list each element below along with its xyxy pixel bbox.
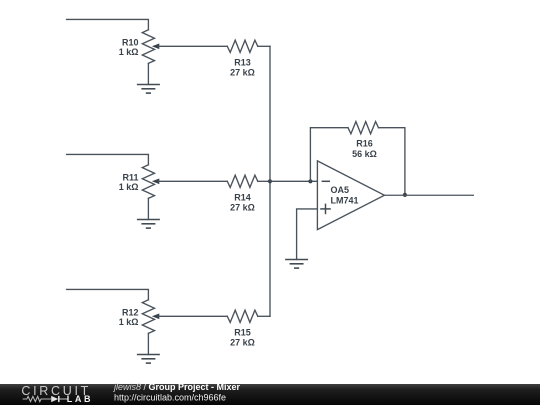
wire op-amp non-inverting input to ground xyxy=(297,209,318,260)
node feedback/input junction xyxy=(308,179,312,183)
svg-text:1 kΩ: 1 kΩ xyxy=(119,317,139,327)
wire R13 to bus xyxy=(258,45,270,47)
ground at non-inverting input xyxy=(285,260,308,269)
wire input stub to R10 top xyxy=(67,19,149,29)
resistor R16 xyxy=(348,122,379,134)
potentiometer R12 xyxy=(142,300,159,334)
footer bar xyxy=(0,384,540,405)
svg-text:LAB: LAB xyxy=(67,394,93,404)
svg-text:27 kΩ: 27 kΩ xyxy=(230,68,255,78)
wire R15 to bus xyxy=(258,315,270,317)
svg-text:http://circuitlab.com/ch966fe: http://circuitlab.com/ch966fe xyxy=(114,393,226,403)
potentiometer R10 xyxy=(142,30,159,64)
potentiometer R11 xyxy=(142,165,159,199)
wire feedback up and right xyxy=(310,128,348,182)
wire bus to op-amp inverting input xyxy=(270,180,317,182)
logo diode symbol xyxy=(51,396,67,402)
wire R12 bottom to ground xyxy=(147,333,149,354)
ground under R12 xyxy=(137,355,160,364)
svg-text:56 kΩ: 56 kΩ xyxy=(352,149,377,159)
wire input stub to R12 top xyxy=(67,289,149,299)
wire R12 wiper to R15 xyxy=(159,315,228,317)
svg-text:R15: R15 xyxy=(234,328,251,338)
logo resistor zigzag xyxy=(23,396,51,401)
svg-text:27 kΩ: 27 kΩ xyxy=(230,338,255,348)
svg-text:1 kΩ: 1 kΩ xyxy=(119,47,139,57)
resistor R13 xyxy=(227,40,257,52)
svg-text:R14: R14 xyxy=(234,193,251,203)
node bus/R14 junction xyxy=(268,179,272,183)
svg-text:R13: R13 xyxy=(234,58,251,68)
wire R10 wiper to R13 xyxy=(159,45,228,47)
resistor R15 xyxy=(227,310,257,322)
op-amp OA5 xyxy=(317,161,384,230)
wire feedback right and down to output xyxy=(379,128,405,195)
svg-text:R16: R16 xyxy=(356,139,373,149)
wire R11 bottom to ground xyxy=(147,198,149,219)
svg-text:OA5: OA5 xyxy=(331,185,350,195)
wire input stub to R11 top xyxy=(67,154,149,164)
wire R11 wiper to R14 xyxy=(159,180,228,182)
wire R14 to bus xyxy=(258,180,270,182)
svg-text:LM741: LM741 xyxy=(331,196,359,206)
wire R10 bottom to ground xyxy=(147,63,149,84)
wire output xyxy=(384,194,473,196)
wire summing bus xyxy=(269,46,271,316)
node feedback/output junction xyxy=(403,193,407,197)
svg-text:27 kΩ: 27 kΩ xyxy=(230,203,255,213)
svg-text:jlewis8 / Group Project - Mixe: jlewis8 / Group Project - Mixer xyxy=(113,382,241,392)
ground under R11 xyxy=(137,220,160,229)
resistor R14 xyxy=(227,175,257,187)
svg-text:1 kΩ: 1 kΩ xyxy=(119,182,139,192)
ground under R10 xyxy=(137,85,160,94)
